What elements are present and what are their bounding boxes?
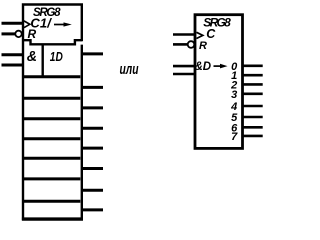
svg-text:или: или [120, 61, 139, 78]
svg-text:R: R [199, 40, 207, 52]
svg-text:&D: &D [195, 61, 212, 73]
svg-text:1D: 1D [50, 49, 63, 64]
svg-text:R: R [28, 27, 37, 41]
svg-text:&: & [27, 49, 37, 65]
svg-text:3: 3 [231, 89, 237, 101]
svg-text:C: C [206, 27, 216, 41]
svg-text:7: 7 [231, 131, 238, 143]
